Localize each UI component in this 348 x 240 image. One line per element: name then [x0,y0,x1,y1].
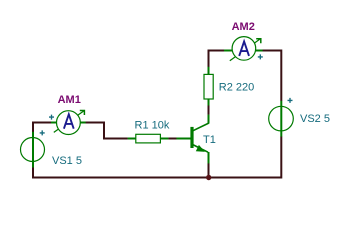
VS1 circle body [21,138,45,162]
AM2 left green lead [224,50,233,52]
wire: R1 to T1 base segment [168,138,176,140]
AM2 right green lead [255,50,263,52]
wire: right vertical below VS2 to bottom rail [280,136,282,178]
svg-text:AM1: AM1 [58,94,81,106]
AM1 arrowhead [80,110,85,115]
VS1 vertical lead line through body [32,132,34,168]
wire: left vertical below VS1 to bottom rail [32,167,34,178]
AM1 needle arrow shaft (under circle) [54,111,84,133]
AM2 letter A [239,42,249,56]
resistor R2 [204,67,213,106]
svg-text:VS1 5: VS1 5 [52,155,82,167]
T1 collector vertical green lead [208,115,210,124]
AM1 right green lead [80,122,86,124]
wire: left vertical from AM1 row down to VS1 top lead [32,122,34,133]
ammeter AM2 [224,37,263,61]
R2 body rectangle [204,74,213,99]
svg-text:AM2: AM2 [232,21,255,33]
R2 bottom green lead [208,99,210,106]
wire: AM2 row right segment to right corner [262,51,282,102]
transistor T1 [176,115,208,164]
R1 right green lead [160,138,168,140]
svg-text:VS2 5: VS2 5 [300,113,330,125]
wire: R1 row left segment [103,138,128,140]
voltage source VS2 [269,98,294,137]
svg-text:T1: T1 [203,134,216,146]
ammeter AM1 [49,110,86,135]
AM2 arrowhead [256,38,261,43]
wire: AM2 row left segment with corner down to R2 [208,50,225,68]
T1 collector diagonal [193,123,209,131]
AM1 plus terminal mark [49,115,54,120]
AM1 circle body [57,111,81,135]
VS1 plus terminal mark [40,130,45,135]
R1 body rectangle [136,134,161,143]
svg-text:R2 220: R2 220 [219,81,254,93]
VS2 plus terminal mark [288,98,293,103]
T1 emitter vertical green lead [208,152,210,163]
R1 left green lead [128,138,136,140]
wire: R2 bottom to collector lead [208,105,210,115]
AM2 needle arrow shaft (under circle) [230,39,261,61]
wire: AM1 right to step-down corner [86,122,106,139]
VS2 circle body [269,106,294,131]
T1 emitter arrowhead [197,146,204,151]
resistor R1 [128,134,169,143]
AM2 plus terminal mark [258,54,263,59]
T1 emitter diagonal [193,145,208,153]
wire: AM1 row left segment [32,122,51,124]
T1 base lead [176,138,190,140]
voltage source VS1 [21,130,45,167]
R2 top green lead [208,67,210,75]
wire: emitter lead down to bottom rail [208,163,210,178]
VS2 vertical lead line through body [280,101,282,137]
wire: bottom rail [32,177,281,179]
AM1 left green lead [51,122,58,124]
svg-text:R1 10k: R1 10k [135,120,170,132]
junction dot at emitter / bottom rail [206,175,211,180]
AM2 circle body [232,37,256,61]
T1 base bar [190,127,193,148]
AM1 letter A [64,114,74,128]
